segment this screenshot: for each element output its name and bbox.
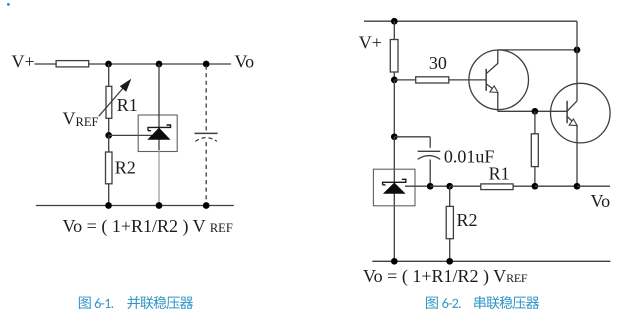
wire R1 top lead [108, 64, 110, 86]
transistor Q2 base bar [566, 101, 568, 123]
svg-text:Vo = ( 1+R1/R2 ) V REF: Vo = ( 1+R1/R2 ) V REF [63, 216, 233, 237]
transistor Q2 circle [551, 83, 611, 143]
wire node to zener anode [109, 134, 152, 136]
junction R1/R2 node right [446, 183, 453, 190]
wire Q1 emitter lead down [497, 93, 499, 112]
resistor R1 arrow [99, 85, 126, 116]
caption 6-2. digits [442, 298, 460, 308]
zener reference box (right) [373, 169, 415, 206]
transistor Q2 emitter arrow [569, 119, 577, 126]
wire zener lower lead (light) [158, 150, 160, 206]
svg-text:Vo = ( 1+R1/R2 ) VREF: Vo = ( 1+R1/R2 ) VREF [363, 266, 528, 287]
junction bottom capacitor [203, 202, 210, 209]
wire cap branch horizontal [394, 136, 430, 138]
junction top of capacitor branch [203, 61, 210, 68]
junction top of zener branch [156, 61, 163, 68]
junction bottom left rail [391, 258, 398, 265]
wire R2 top lead right [449, 186, 451, 206]
wire node to resistor 30 [394, 79, 415, 81]
svg-text:Vo: Vo [591, 191, 611, 211]
junction base resistor node [391, 77, 398, 84]
zener diode D2 cathode left hook [383, 184, 386, 186]
wire R1 to divider node [513, 185, 535, 187]
zener diode D1 triangle [147, 128, 170, 140]
svg-text:0.01uF: 0.01uF [444, 146, 495, 166]
zener diode D2 cathode bar [383, 179, 406, 185]
caption 串联稳压器 [474, 296, 539, 309]
zener reference box (left) [138, 115, 177, 152]
svg-text:V+: V+ [359, 33, 382, 53]
wire top rail left segment [35, 63, 57, 65]
caption 6-1. digits [95, 298, 113, 308]
junction bottom R2 right [446, 258, 453, 265]
wire capacitor dashed bottom [205, 142, 207, 206]
junction bottom R2 [105, 202, 112, 209]
svg-text:VREF: VREF [63, 109, 99, 130]
capacitor C1 bottom plate (curved dashed) [195, 138, 217, 142]
capacitor C1 top plate [195, 132, 218, 134]
transistor Q1 base bar [485, 69, 487, 91]
wire Q1 emitter to Q2 base [498, 110, 567, 112]
wire cap top lead [429, 137, 431, 148]
transistor Q1 emitter arrow [490, 86, 498, 93]
resistor R2 body [106, 152, 113, 184]
wire bottom rail [36, 205, 234, 207]
transistor Q1 collector [486, 50, 498, 74]
zener diode D1 cathode bar [148, 125, 171, 131]
svg-text:Vo: Vo [235, 51, 255, 71]
transistor Q2 collector [567, 101, 577, 111]
wire top rail [364, 20, 577, 22]
svg-text:R1: R1 [489, 164, 510, 184]
wire bottom rail right [372, 260, 610, 262]
svg-text:R1: R1 [117, 95, 138, 115]
resistor divider (vertical, unlabeled) [531, 134, 538, 167]
wire divider resistor top lead [534, 111, 536, 134]
resistor R2 right body [446, 206, 453, 238]
junction R1/R2 node [105, 132, 112, 139]
wire left rail below resistor [393, 72, 395, 80]
wire Q2 emitter lead down [576, 126, 578, 187]
junction collector/right rail [574, 47, 581, 54]
junction left rail / cap branch [391, 133, 398, 140]
wire R1 bottom lead [108, 118, 110, 135]
junction divider node [532, 108, 539, 115]
wire divider resistor bottom lead [534, 167, 536, 187]
svg-text:R2: R2 [115, 158, 136, 178]
wire zener vertical through box [158, 64, 160, 150]
blue bullet marker [7, 3, 10, 6]
wire capacitor dashed top [205, 66, 207, 131]
wire node row to emitter node [535, 185, 577, 187]
wire right rail top [576, 21, 578, 50]
resistor R1 (variable) body [106, 86, 112, 118]
resistor series input (horizontal) [56, 61, 89, 67]
wire node row cap to R2 node [430, 185, 450, 187]
capacitor C2 bottom plate (curved) [418, 156, 441, 160]
wire cap bottom lead [429, 160, 431, 187]
svg-text:R2: R2 [457, 210, 478, 230]
transistor Q1 emitter [486, 84, 496, 92]
wire R2 top lead [108, 135, 110, 152]
wire zener to node row [405, 185, 430, 187]
wire left rail top lead [393, 21, 395, 39]
transistor Q2 emitter [567, 117, 576, 125]
wire R2 bottom lead [108, 184, 110, 206]
junction emitter node [574, 183, 581, 190]
wire node to R1 [450, 185, 481, 187]
wire output stub [577, 185, 610, 187]
capacitor C2 top plate [418, 150, 441, 152]
caption 图 6-1 character 图 [79, 297, 91, 309]
caption 并联稳压器 [127, 296, 193, 309]
caption 图 6-2 character 图 [426, 297, 438, 309]
junction R1 right end [532, 183, 539, 190]
svg-text:30: 30 [429, 53, 447, 73]
junction top of R1 [105, 61, 112, 68]
wire resistor 30 to Q1 base [449, 79, 486, 81]
junction top left rail [391, 18, 398, 25]
zener diode D1 cathode left hook [148, 130, 151, 132]
wire R2 bottom lead right [449, 239, 451, 262]
wire Q1 collector rail to right [498, 49, 577, 51]
junction bottom zener [156, 202, 163, 209]
zener diode D2 triangle [383, 183, 406, 194]
resistor 30 body [416, 77, 449, 83]
wire left rail through zener [393, 137, 395, 261]
wire top rail to output [159, 63, 231, 65]
resistor R1 right body [481, 184, 513, 190]
junction cap bottom node [427, 183, 434, 190]
transistor Q1 circle [469, 50, 529, 110]
wire right rail to Q2 collector [576, 50, 578, 101]
wire left rail mid [393, 80, 395, 137]
resistor input (vertical, unlabeled) [390, 40, 398, 73]
svg-text:V+: V+ [12, 51, 35, 71]
wire top rail middle [89, 63, 159, 65]
